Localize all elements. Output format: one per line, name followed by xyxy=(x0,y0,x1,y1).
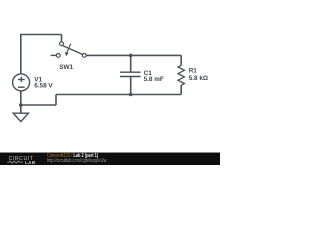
resistor R1 xyxy=(178,65,184,85)
svg-text:SW1: SW1 xyxy=(59,64,73,71)
wire bottom rail upper section xyxy=(56,94,181,96)
wire top rail left section xyxy=(20,34,61,36)
SW1 throw stub wire xyxy=(51,54,57,56)
wire bottom rail lower section to V1 node xyxy=(21,104,56,106)
wire V1 bottom to ground node xyxy=(20,91,22,113)
ground xyxy=(13,113,28,121)
node junction at V1 bottom xyxy=(19,103,23,107)
SW1 lever xyxy=(63,46,83,55)
svg-text:6.58 V: 6.58 V xyxy=(34,83,53,90)
switch SW1 xyxy=(51,42,87,58)
SW1 left terminal xyxy=(56,54,60,58)
voltage source V1 xyxy=(13,74,30,91)
SW1 common terminal xyxy=(82,54,86,58)
footer line 2: circuit url xyxy=(47,159,106,164)
svg-text:R1: R1 xyxy=(189,67,198,74)
footer bar xyxy=(0,152,220,165)
svg-text:LAB: LAB xyxy=(25,160,36,165)
svg-text:5.8 mF: 5.8 mF xyxy=(144,76,164,83)
wire from switch common to right xyxy=(86,54,181,56)
node junction capacitor bottom xyxy=(129,93,133,97)
footer line 1: user / circuit title xyxy=(47,154,98,159)
wire capacitor top lead xyxy=(130,55,132,72)
SW1 top terminal xyxy=(60,42,64,46)
wire right rail top (to resistor) xyxy=(180,55,182,65)
wire drop to switch throw terminal xyxy=(61,35,63,42)
SW1 actuator arrow xyxy=(67,44,71,53)
CircuitLab logo xyxy=(0,154,46,167)
wire bottom jog vertical xyxy=(55,95,57,106)
capacitor C1 xyxy=(120,72,141,76)
wire right rail bottom (resistor to bottom rail) xyxy=(180,85,182,94)
svg-text:5.8 kΩ: 5.8 kΩ xyxy=(189,75,208,82)
wire capacitor bottom lead xyxy=(130,77,132,95)
wire left rail from V1 top to top-left corner xyxy=(20,35,22,74)
node junction capacitor top xyxy=(129,54,133,58)
